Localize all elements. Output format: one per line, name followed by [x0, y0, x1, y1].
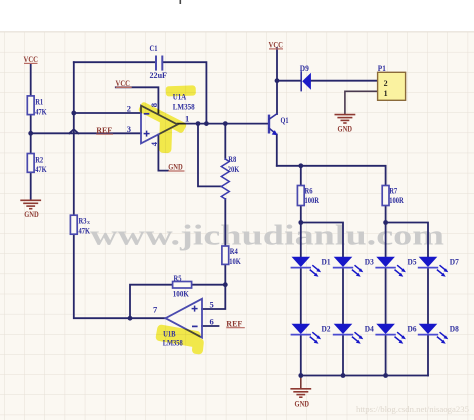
LED D8 [419, 324, 449, 344]
connector P1 [378, 72, 406, 100]
node emitter/R6 [298, 163, 303, 168]
capacitor C1 [156, 57, 162, 70]
ground LED rail [291, 389, 310, 397]
wire D9 to P1 pin2 [311, 80, 378, 82]
node rail12 left [298, 220, 303, 225]
highlight U1B label [155, 324, 201, 348]
svg-text:GND: GND [168, 162, 183, 172]
wire C1 left [74, 61, 156, 63]
wire C1 right to output [163, 62, 207, 123]
highlight U1B tail [192, 338, 205, 355]
wire R2 to GND [30, 172, 32, 200]
wire U1B pin6 stub to REF [202, 325, 219, 327]
wire U1A output to Q1 base [178, 123, 269, 125]
svg-text:1: 1 [185, 113, 189, 123]
wire R6 bottom [300, 206, 302, 223]
node output j1 [196, 121, 201, 126]
svg-text:3: 3 [127, 124, 131, 134]
wire U1B pin5 [202, 285, 225, 309]
wire node A vertical C1-left to R3 [73, 62, 75, 215]
wire column3 mid [385, 268, 387, 324]
wire Q1 emitter down [276, 135, 278, 166]
svg-text:LM358: LM358 [173, 102, 195, 111]
U1A plus [144, 131, 150, 137]
resistor R3 [70, 215, 77, 234]
node output j2 [204, 121, 209, 126]
svg-text:100R: 100R [389, 196, 404, 205]
node bottom rail c3 [383, 373, 388, 378]
svg-text:D5: D5 [408, 257, 417, 266]
svg-text:R2: R2 [35, 155, 43, 164]
svg-text:100K: 100K [173, 289, 190, 298]
svg-text:D2: D2 [322, 325, 331, 334]
wire column3 bottom [385, 335, 387, 376]
svg-text:LM358: LM358 [163, 339, 183, 348]
resistor R1 [27, 96, 34, 115]
node output j3 [223, 121, 228, 126]
wire VCC to R1 [30, 64, 32, 96]
svg-text:R1: R1 [35, 98, 43, 107]
svg-text:R3: R3 [79, 217, 87, 226]
svg-text:C1: C1 [150, 44, 158, 53]
svg-text:R5: R5 [174, 274, 182, 283]
wire R6 drop [300, 166, 302, 186]
svg-text:VCC: VCC [116, 78, 131, 88]
svg-text:47K: 47K [79, 227, 91, 236]
highlight U1A inputs stroke [138, 101, 187, 134]
wire column1 bottom [300, 335, 302, 376]
svg-text:R6: R6 [305, 187, 313, 196]
svg-text:GND: GND [24, 209, 39, 219]
wire REF node to pin3 [31, 132, 141, 134]
resistor R7 [382, 186, 389, 206]
resistor R5 [173, 282, 192, 289]
LED D3 [334, 257, 364, 277]
wire output to R8 top [224, 124, 226, 159]
svg-text:VCC: VCC [269, 40, 284, 50]
svg-text:D8: D8 [450, 325, 459, 334]
svg-text:8: 8 [149, 103, 159, 107]
svg-text:D6: D6 [408, 325, 417, 334]
node R4/R5 [223, 282, 228, 287]
svg-text:22uF: 22uF [150, 71, 168, 80]
diode D9 [301, 72, 311, 91]
wire bottom rail to GND stub [300, 376, 302, 389]
wire R8 bottom to R4 [224, 199, 226, 246]
svg-text:1: 1 [384, 89, 388, 98]
svg-text:U1A: U1A [173, 93, 187, 102]
wire column2 bottom [342, 335, 344, 376]
resistor R6 [297, 186, 304, 206]
svg-text:REF: REF [96, 125, 112, 135]
wire Q1 collector to VCC [276, 48, 278, 114]
svg-text:2: 2 [127, 104, 131, 114]
ground P1 [335, 115, 354, 123]
resistor R8 zigzag [221, 159, 229, 199]
wire R3 bottom to pin7 node [74, 234, 130, 318]
resistor R4 [222, 246, 229, 264]
LED D4 [334, 324, 364, 344]
svg-text:GND: GND [338, 124, 353, 134]
op-amp U1A [141, 106, 178, 144]
LED D6 [376, 324, 406, 344]
svg-text:D9: D9 [300, 64, 309, 73]
wire VCC to U1A pin8 [116, 87, 159, 113]
svg-text:47K: 47K [35, 107, 47, 116]
wire column4 bottom [427, 335, 429, 376]
svg-text:D4: D4 [365, 325, 374, 334]
svg-text:10K: 10K [229, 257, 241, 266]
svg-text:100R: 100R [305, 196, 320, 205]
svg-text:D3: D3 [365, 257, 374, 266]
wire column1 mid [300, 268, 302, 324]
ground under R2 [21, 200, 40, 208]
wire output to R8 tap [198, 124, 221, 187]
wire U1A pin4 to GND label [158, 135, 168, 171]
svg-text:R7: R7 [389, 187, 397, 196]
wire column2 mid [342, 268, 344, 324]
LED D1 [292, 257, 322, 277]
highlight U1A vertical stroke [159, 116, 173, 153]
svg-text:20K: 20K [228, 165, 240, 174]
transistor Q1 [269, 114, 278, 136]
wire U1B pin7 [130, 317, 166, 319]
wire node A to pin2 [74, 112, 141, 114]
node U1B pin7 [128, 316, 133, 321]
wire collector node to D9 [277, 80, 301, 82]
op-amp U1B [166, 299, 203, 338]
U1B minus [192, 325, 198, 327]
svg-text:D7: D7 [450, 258, 459, 267]
svg-text:x: x [87, 220, 90, 226]
wire column4 mid [427, 268, 429, 324]
svg-text:R4: R4 [230, 247, 238, 256]
wire column1 top [300, 223, 302, 257]
svg-text:2: 2 [384, 79, 388, 88]
svg-text:U1B: U1B [163, 329, 176, 338]
svg-text:D1: D1 [322, 257, 331, 266]
wire hop REF over node A [69, 129, 78, 133]
svg-text:GND: GND [295, 399, 310, 409]
node bottom rail c2 [341, 373, 346, 378]
LED D2 [292, 324, 322, 344]
svg-text:Q1: Q1 [281, 116, 289, 125]
wire emitter rail to R7 [277, 166, 386, 186]
U1B plus [192, 306, 198, 312]
svg-text:https://blog.csdn.net/nisaoga2: https://blog.csdn.net/nisaoga235 [356, 404, 469, 414]
wire rail columns 3-4 [386, 223, 428, 257]
highlight U1A label [166, 85, 196, 96]
LED D5 [376, 257, 406, 277]
wire R5 left down to pin7 node [130, 285, 173, 319]
wire R5 right [192, 284, 226, 286]
wire bottom rail [301, 375, 428, 377]
LED D7 [419, 257, 449, 277]
resistor R2 [27, 154, 34, 173]
svg-text:5: 5 [210, 300, 214, 310]
wire rail columns 1-2 [301, 223, 343, 257]
svg-text:47K: 47K [35, 165, 47, 174]
node REF junction [28, 131, 33, 136]
svg-text:VCC: VCC [24, 54, 39, 64]
svg-text:R8: R8 [228, 155, 236, 164]
wire R1 to R2 [30, 115, 32, 154]
node bottom rail c1 [298, 373, 303, 378]
wire R4 to R5-right node [224, 264, 226, 284]
svg-text:6: 6 [210, 316, 214, 326]
wire R7 bottom [385, 206, 387, 223]
node collector/D9 [275, 78, 280, 83]
node rail34 left [383, 220, 388, 225]
U1A minus [144, 113, 150, 115]
stray tick top [180, 0, 182, 4]
node A pin2 junction [71, 111, 76, 116]
wire P1 pin1 to GND [345, 91, 378, 114]
wire column3 top [385, 223, 387, 257]
svg-text:www.jichudianlu.com: www.jichudianlu.com [90, 221, 444, 252]
svg-text:REF: REF [226, 318, 242, 328]
svg-text:P1: P1 [378, 64, 386, 73]
